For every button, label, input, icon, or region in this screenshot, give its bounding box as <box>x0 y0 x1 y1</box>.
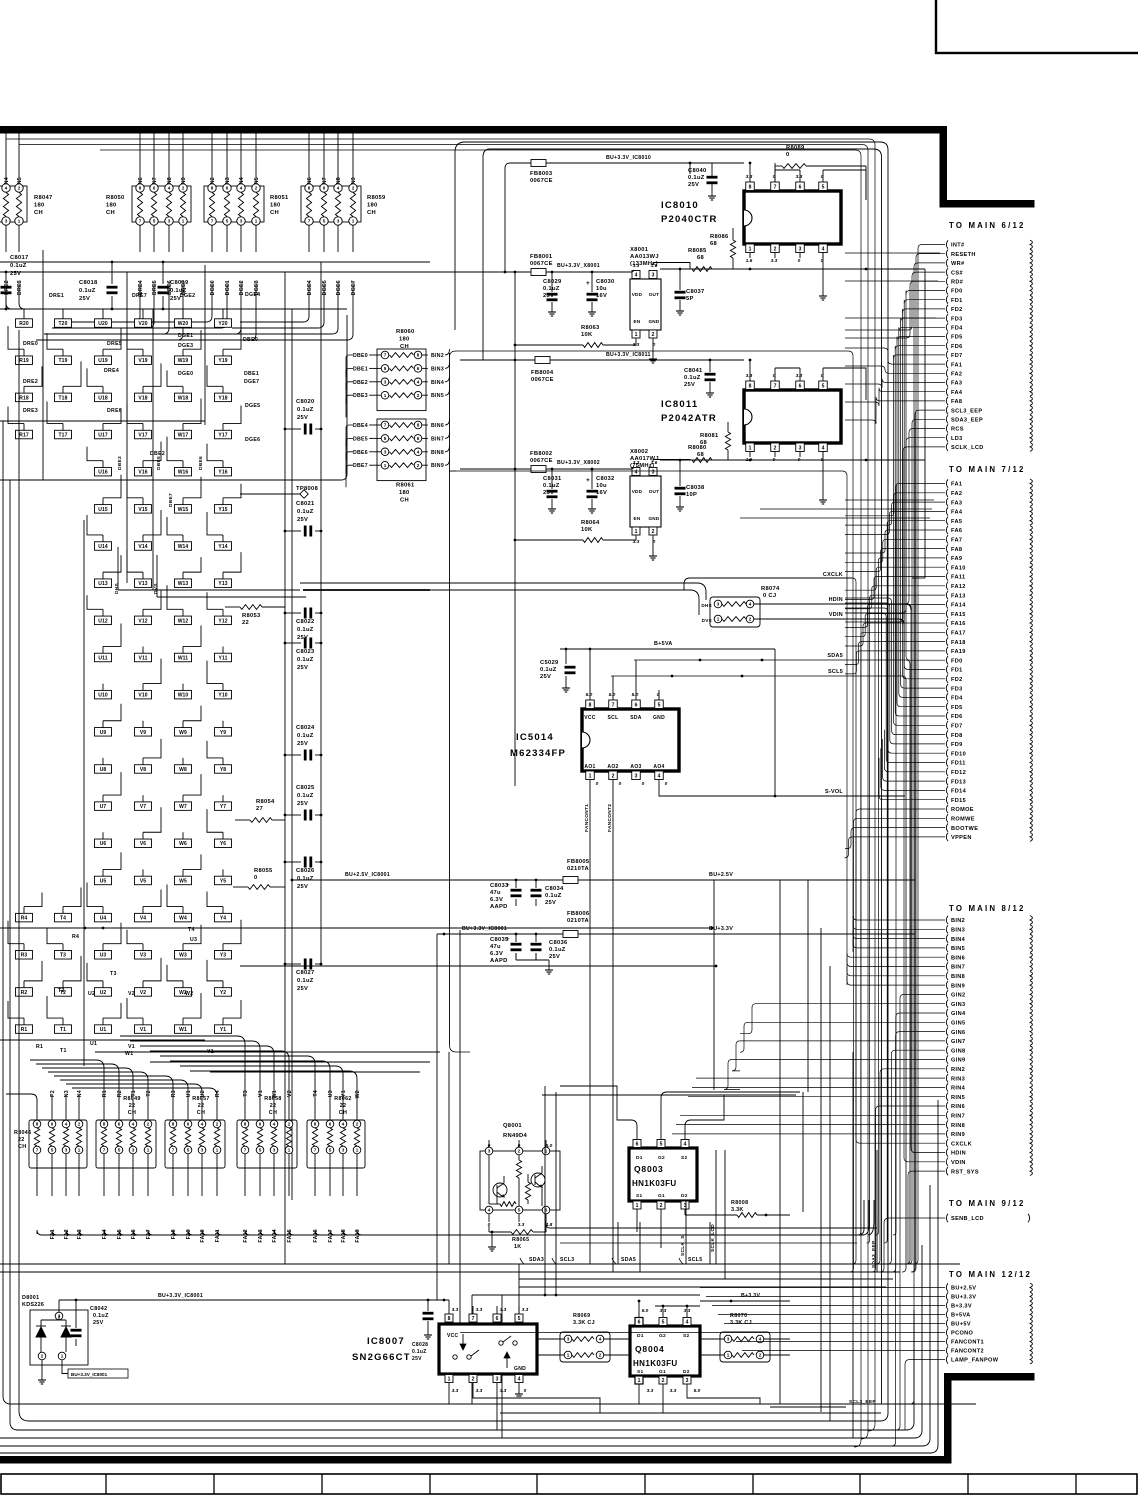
wire FA14 <box>845 604 945 627</box>
wire FD5 <box>897 337 945 341</box>
svg-text:0.1uZ: 0.1uZ <box>93 1313 109 1319</box>
pin 5 Q8004 <box>659 1318 667 1326</box>
wire FA13 drop <box>260 1230 860 1235</box>
svg-text:25V: 25V <box>412 1356 422 1362</box>
wire vertical <box>724 1150 726 1279</box>
svg-text:5: 5 <box>259 1148 262 1153</box>
svg-text:4: 4 <box>168 186 171 191</box>
svg-text:0067CE: 0067CE <box>530 458 553 464</box>
svg-text:4: 4 <box>822 247 825 253</box>
wire FA19 drop <box>357 1230 864 1235</box>
svg-text:5: 5 <box>822 185 825 191</box>
svg-text:1: 1 <box>589 774 592 780</box>
node Y14 <box>215 542 232 551</box>
svg-text:V2: V2 <box>128 991 135 997</box>
resistor network R8059 <box>301 186 361 222</box>
svg-text:OUT: OUT <box>649 489 660 494</box>
wire BU+3.3V trunk x515 <box>514 272 516 786</box>
svg-text:T3: T3 <box>243 1090 249 1097</box>
wire FD7 <box>893 355 945 359</box>
wire FD1 <box>904 300 945 670</box>
svg-text:FB8006: FB8006 <box>567 911 590 917</box>
wire FA1 <box>51 1154 53 1196</box>
svg-text:DRE1: DRE1 <box>49 293 64 299</box>
svg-text:U12: U12 <box>98 618 108 624</box>
svg-text:BIN2: BIN2 <box>431 353 444 359</box>
ground C8030 <box>591 308 593 312</box>
svg-text:8: 8 <box>139 186 142 191</box>
svg-text:R1: R1 <box>102 1090 108 1097</box>
svg-text:3.3: 3.3 <box>452 1388 459 1394</box>
ground C8035 C8036 <box>515 953 517 960</box>
node U6 <box>95 839 112 848</box>
svg-text:5: 5 <box>187 1148 190 1153</box>
node FA13 <box>946 591 948 599</box>
wire BIN8 <box>422 451 428 453</box>
svg-text:6: 6 <box>153 186 156 191</box>
svg-text:FB8002: FB8002 <box>530 451 552 457</box>
svg-text:WR#: WR# <box>951 261 965 267</box>
wire RCS <box>845 429 945 605</box>
resistor element R8060.2 <box>381 365 389 373</box>
svg-text:CH: CH <box>128 1110 136 1116</box>
wire FA6 <box>845 530 945 553</box>
svg-text:7: 7 <box>384 423 387 428</box>
svg-text:G1: G1 <box>659 1369 666 1375</box>
resistor element R8057.4 <box>213 1120 221 1128</box>
svg-text:CH: CH <box>197 1110 205 1116</box>
svg-text:X8002: X8002 <box>630 449 648 455</box>
node RIN2 <box>946 1065 948 1073</box>
svg-text:TO MAIN 6/12: TO MAIN 6/12 <box>949 221 1026 230</box>
pin 8 IC5014 <box>586 700 595 709</box>
svg-text:U2: U2 <box>200 1090 206 1097</box>
svg-text:T1: T1 <box>60 1048 67 1054</box>
svg-text:6: 6 <box>417 366 420 371</box>
wire vertical <box>709 1222 711 1264</box>
svg-text:8: 8 <box>36 1122 39 1127</box>
wire RESETH <box>912 254 945 1272</box>
wire BIN6 <box>422 424 428 426</box>
svg-text:FA2: FA2 <box>951 491 962 497</box>
svg-text:FD10: FD10 <box>951 751 966 757</box>
wire RIN7 <box>680 1114 945 1116</box>
node V1 <box>135 1025 152 1034</box>
pin 5 IC8010 <box>819 182 828 191</box>
node RIN4 <box>946 1083 948 1091</box>
svg-text:6: 6 <box>799 185 802 191</box>
svg-text:6: 6 <box>51 1122 54 1127</box>
svg-text:PCONO: PCONO <box>951 1331 974 1337</box>
wire GIN2 <box>211 133 213 184</box>
svg-text:2: 2 <box>288 1122 291 1127</box>
svg-text:RIN9: RIN9 <box>951 1132 965 1138</box>
svg-text:G2: G2 <box>659 1333 666 1339</box>
svg-text:FA12: FA12 <box>951 584 966 590</box>
svg-text:3: 3 <box>5 219 8 224</box>
wire FA12 <box>244 1154 246 1196</box>
svg-text:3.3: 3.3 <box>518 1222 525 1228</box>
node V4 <box>135 913 152 922</box>
node HDIN <box>946 1148 948 1156</box>
svg-text:1: 1 <box>352 219 355 224</box>
pin 7 IC8010 <box>771 182 780 191</box>
node U7 <box>95 802 112 811</box>
svg-text:W3: W3 <box>179 953 187 959</box>
resistor element R8057.3 <box>198 1120 206 1128</box>
svg-text:3: 3 <box>727 1337 730 1342</box>
node U8 <box>95 765 112 774</box>
node Y3 <box>215 951 232 960</box>
node SENB_LCD <box>946 1214 948 1222</box>
pin 4 IC8011 <box>819 443 828 452</box>
pin 7 IC5014 <box>609 700 618 709</box>
node GIN9 <box>946 1055 948 1063</box>
svg-text:V18: V18 <box>138 395 147 401</box>
node BIN8 <box>946 972 948 980</box>
svg-text:T1: T1 <box>60 1027 66 1033</box>
svg-text:DVS: DVS <box>702 618 712 623</box>
svg-text:0.1uZ: 0.1uZ <box>684 375 701 381</box>
svg-text:FA14: FA14 <box>951 603 966 609</box>
svg-text:DGE0: DGE0 <box>210 280 216 295</box>
svg-text:HN1K03FU: HN1K03FU <box>633 1359 678 1368</box>
svg-text:U2: U2 <box>100 990 107 996</box>
page number box top right <box>936 0 1138 53</box>
node W9 <box>175 728 192 737</box>
wire FA5 drop <box>119 1230 860 1235</box>
node BU+3.3V_IC8001 boxed <box>68 1369 128 1378</box>
svg-text:U19: U19 <box>98 358 108 364</box>
svg-text:FB8001: FB8001 <box>530 254 553 260</box>
wire rail x321 <box>320 262 322 964</box>
svg-text:W4: W4 <box>179 916 187 922</box>
wire BIN8 <box>847 972 945 976</box>
svg-text:G2: G2 <box>658 1155 665 1161</box>
svg-text:4: 4 <box>488 1208 491 1213</box>
node R20 <box>16 319 33 328</box>
svg-text:1: 1 <box>61 1354 64 1359</box>
wire FA8 <box>845 549 945 572</box>
svg-text:W1: W1 <box>272 1090 278 1098</box>
svg-text:180: 180 <box>34 203 45 209</box>
pin 1 IC8011 <box>746 443 755 452</box>
svg-text:SCL5: SCL5 <box>828 669 843 675</box>
wire RIN5 <box>688 1096 945 1098</box>
node V19 <box>135 356 152 365</box>
svg-text:SENB_LCD: SENB_LCD <box>951 1216 984 1222</box>
wire vertical <box>544 1086 546 1295</box>
wire FD5 <box>897 337 945 707</box>
wire RST_SYS <box>908 1171 945 1264</box>
svg-text:W16: W16 <box>178 470 189 476</box>
resistor element R8061.3 <box>381 448 389 456</box>
svg-text:V13: V13 <box>138 581 147 587</box>
svg-text:1: 1 <box>749 446 752 452</box>
wire vertical x714 <box>713 880 715 1090</box>
svg-text:2: 2 <box>18 186 21 191</box>
svg-text:FD7: FD7 <box>951 724 963 730</box>
pin 5 Q8003 <box>657 1140 665 1148</box>
svg-text:RESETH: RESETH <box>951 252 976 258</box>
resistor element R8046.2 <box>48 1120 56 1128</box>
svg-text:22: 22 <box>242 620 249 626</box>
svg-text:S2: S2 <box>681 1155 687 1161</box>
wire DGE7 <box>352 225 354 252</box>
wire BU+2.5V <box>700 1287 945 1289</box>
svg-text:DBE7: DBE7 <box>353 463 368 469</box>
pin 6 IC8010 <box>796 182 805 191</box>
svg-text:FA6: FA6 <box>951 528 962 534</box>
svg-text:V12: V12 <box>138 618 147 624</box>
node V17 <box>135 430 152 439</box>
svg-text:FA7: FA7 <box>146 1229 152 1239</box>
node U18 <box>95 393 112 402</box>
svg-text:7: 7 <box>211 219 214 224</box>
svg-text:2: 2 <box>356 1122 359 1127</box>
node GIN2 <box>946 990 948 998</box>
node V14 <box>135 542 152 551</box>
wire BIN6 <box>847 953 945 957</box>
wire ROMOE <box>852 809 945 1264</box>
ground X8002 gnd <box>652 536 654 553</box>
svg-text:5: 5 <box>658 703 661 709</box>
svg-text:U4: U4 <box>100 916 107 922</box>
node FANCONT2 <box>946 1346 948 1354</box>
wire Y1 <box>342 1095 344 1120</box>
wire FD0 <box>906 291 945 295</box>
svg-text:V20: V20 <box>138 321 147 327</box>
svg-text:6.3V: 6.3V <box>490 951 503 957</box>
wire HDIN <box>754 603 905 605</box>
svg-text:0: 0 <box>665 781 668 787</box>
wire FA17 <box>329 1154 331 1196</box>
svg-text:IC5014: IC5014 <box>516 732 554 743</box>
svg-text:FD5: FD5 <box>951 705 963 711</box>
wire FA2 <box>845 366 945 373</box>
resistor element R8059.4 <box>349 184 357 192</box>
svg-text:1: 1 <box>448 1377 451 1383</box>
node Y8 <box>215 765 232 774</box>
svg-text:W15: W15 <box>178 507 189 513</box>
svg-text:R8054: R8054 <box>256 799 275 805</box>
svg-text:68: 68 <box>697 255 705 261</box>
svg-text:8: 8 <box>308 186 311 191</box>
wire SCL3_EEP <box>911 410 945 1272</box>
wire BIN2 <box>853 916 945 920</box>
wire DBE3 <box>369 394 381 396</box>
svg-text:6: 6 <box>226 186 229 191</box>
svg-text:3.3: 3.3 <box>633 460 640 466</box>
wire ROMWE <box>850 818 946 1272</box>
svg-text:W7: W7 <box>179 804 187 810</box>
wire FD15 <box>879 758 945 800</box>
pin 5 IC8007 <box>515 1314 523 1322</box>
svg-text:25V: 25V <box>688 182 699 188</box>
svg-text:4: 4 <box>822 446 825 452</box>
svg-text:SDA: SDA <box>630 715 642 721</box>
wire CXCLK <box>924 269 926 578</box>
node V10 <box>135 690 152 699</box>
svg-text:2: 2 <box>472 1377 475 1383</box>
svg-text:3.3: 3.3 <box>771 258 778 264</box>
node FA8 <box>946 397 948 405</box>
svg-text:V1: V1 <box>140 1027 146 1033</box>
wire SDA3_EEP <box>908 419 945 1264</box>
wire x437 rail <box>436 934 438 1300</box>
svg-text:BIN9: BIN9 <box>431 463 444 469</box>
svg-text:25V: 25V <box>297 986 308 992</box>
svg-text:5.0: 5.0 <box>546 1143 553 1149</box>
wire RIN6 <box>139 133 141 184</box>
wire vertical <box>448 1052 450 1264</box>
svg-text:R3: R3 <box>171 1090 177 1097</box>
node FD11 <box>946 758 948 766</box>
svg-text:25V: 25V <box>545 900 556 906</box>
node LAMP_FANPOW <box>946 1355 948 1363</box>
node GIN6 <box>946 1027 948 1035</box>
svg-text:0210TA: 0210TA <box>567 918 590 924</box>
svg-text:1: 1 <box>635 529 638 535</box>
resistor Q8001 r2 <box>525 1182 530 1200</box>
svg-text:V5: V5 <box>140 878 146 884</box>
svg-text:8: 8 <box>448 1316 451 1322</box>
svg-text:TO MAIN 7/12: TO MAIN 7/12 <box>949 465 1026 474</box>
node Y12 <box>215 616 232 625</box>
svg-text:0.1uZ: 0.1uZ <box>297 978 314 984</box>
svg-text:V2: V2 <box>287 1090 293 1097</box>
svg-text:3: 3 <box>132 1148 135 1153</box>
svg-text:3.3: 3.3 <box>647 1388 654 1394</box>
wire FA4 <box>845 388 945 406</box>
svg-text:10u: 10u <box>596 286 607 292</box>
wire HDIN <box>907 604 945 1153</box>
wire GIN9 <box>352 133 354 184</box>
svg-text:8: 8 <box>172 1122 175 1127</box>
svg-text:U3: U3 <box>328 1090 334 1097</box>
svg-text:AAPD: AAPD <box>490 958 508 964</box>
wire SDA3 rail <box>0 1263 960 1265</box>
svg-text:10P: 10P <box>686 492 697 498</box>
svg-text:16V: 16V <box>596 490 607 496</box>
wire vertical <box>518 1264 520 1330</box>
svg-text:V6: V6 <box>140 841 146 847</box>
op-amp U IC5014 package <box>582 709 679 771</box>
wire FD4 <box>899 327 945 697</box>
pin 7 IC8007 <box>469 1314 477 1322</box>
wire VPPEN <box>845 837 946 858</box>
svg-text:25V: 25V <box>79 296 90 302</box>
svg-text:V7: V7 <box>140 804 146 810</box>
svg-text:CH: CH <box>106 210 115 216</box>
svg-text:2: 2 <box>662 1378 665 1384</box>
transistor Q8004 package <box>630 1326 700 1376</box>
wire LAMP_FANPOW <box>905 1360 945 1431</box>
svg-text:6: 6 <box>259 1122 262 1127</box>
svg-text:DGE2: DGE2 <box>239 280 245 295</box>
wire FA7 <box>845 539 945 562</box>
ground C8041 <box>709 389 711 393</box>
resistor element R8061.1 <box>381 421 389 429</box>
svg-text:B+3.3V: B+3.3V <box>951 1304 972 1310</box>
wire rail x292 <box>291 309 293 1200</box>
svg-text:BU+3.3V_IC8001: BU+3.3V_IC8001 <box>462 926 507 932</box>
wire FD6 <box>895 346 945 716</box>
svg-text:C8026: C8026 <box>296 868 315 874</box>
svg-text:FA8: FA8 <box>951 547 962 553</box>
wire FANCONT1 <box>736 1341 945 1343</box>
svg-text:DRE3: DRE3 <box>23 408 38 414</box>
svg-text:DBE2: DBE2 <box>353 380 368 386</box>
node FD12 <box>946 768 948 776</box>
svg-text:DGE5: DGE5 <box>322 280 328 295</box>
wire outer loop rail B <box>490 149 882 1404</box>
svg-text:CH: CH <box>400 344 409 350</box>
svg-text:4: 4 <box>65 1122 68 1127</box>
node T19 <box>55 356 72 365</box>
wire vertical x127 <box>126 272 128 583</box>
svg-text:3.3K CJ: 3.3K CJ <box>573 1320 595 1326</box>
node R18 <box>16 393 33 402</box>
svg-text:T2: T2 <box>146 1090 152 1097</box>
svg-text:BIN4: BIN4 <box>951 937 966 943</box>
wire FA13 <box>259 1154 261 1196</box>
svg-text:8: 8 <box>244 1122 247 1127</box>
svg-text:FA3: FA3 <box>951 381 962 387</box>
svg-text:RIN8: RIN8 <box>951 1123 965 1129</box>
wire FA10 drop <box>202 1230 862 1235</box>
svg-text:R8059: R8059 <box>367 195 386 201</box>
node W8 <box>175 765 192 774</box>
capacitor C8024 <box>285 754 301 756</box>
svg-text:6.3V: 6.3V <box>490 897 503 903</box>
svg-text:0: 0 <box>518 1143 521 1149</box>
svg-text:0: 0 <box>798 258 801 264</box>
svg-text:2: 2 <box>182 186 185 191</box>
svg-text:GND: GND <box>648 516 659 521</box>
svg-text:V4: V4 <box>140 916 146 922</box>
wire FANCONT2 <box>742 1350 945 1352</box>
svg-text:GIN6: GIN6 <box>951 1030 965 1036</box>
svg-text:V14: V14 <box>138 544 147 550</box>
node Y5 <box>215 876 232 885</box>
wire FD14 <box>881 748 945 790</box>
svg-text:3.3: 3.3 <box>746 174 753 180</box>
svg-text:1: 1 <box>749 247 752 253</box>
node V16 <box>135 467 152 476</box>
svg-text:0 CJ: 0 CJ <box>763 593 776 599</box>
svg-text:4: 4 <box>417 449 420 454</box>
svg-text:+: + <box>586 477 590 484</box>
svg-text:4: 4 <box>599 1337 602 1342</box>
node Y17 <box>215 430 232 439</box>
capacitor C8021 <box>285 530 301 532</box>
svg-text:S1: S1 <box>636 1193 642 1199</box>
svg-text:S-VOL: S-VOL <box>825 789 843 795</box>
node FA15 <box>946 610 948 618</box>
svg-text:RIN5: RIN5 <box>951 1095 965 1101</box>
wire DRE2 <box>5 225 7 252</box>
svg-text:FB8003: FB8003 <box>530 171 553 177</box>
svg-text:5: 5 <box>518 1316 521 1322</box>
svg-text:VDIN: VDIN <box>829 612 843 618</box>
svg-text:2: 2 <box>612 774 615 780</box>
wire GIN5 <box>740 1022 945 1052</box>
svg-text:T4: T4 <box>188 927 195 933</box>
svg-text:2: 2 <box>518 1149 521 1154</box>
wire FA15 <box>845 614 945 637</box>
node RD# <box>946 277 948 285</box>
